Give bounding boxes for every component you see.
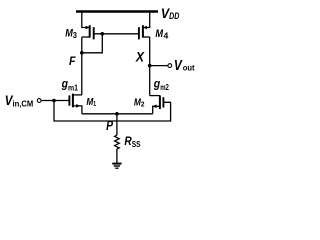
ground [112,164,121,169]
wire P to resistor [116,114,118,135]
wire M4 source to VDD [144,12,150,28]
wire Vin to M1 gate [41,100,69,102]
wire F column (M3 drain to M1 drain) [81,37,83,95]
terminal Vin circle [37,99,41,103]
node gate junction [101,32,105,36]
node F [80,51,84,55]
wire to Vout terminal [150,65,168,67]
transistor M4 [139,25,150,39]
svg-text:F: F [69,54,76,68]
wire X column (M4 drain to M2 drain) [149,37,151,96]
wire gate line M3-M4 [95,33,139,35]
resistor RSS [115,135,120,149]
svg-text:M4: M4 [155,28,168,40]
svg-text:X: X [135,49,145,65]
terminal Vout circle [168,64,172,68]
wire source line to node P [82,113,153,115]
node Vin junction [52,99,56,103]
svg-text:M1: M1 [86,97,96,108]
transistor M3 [82,25,94,39]
svg-text:M2: M2 [134,97,145,108]
node X [148,64,152,68]
wire M2 gate return (to Vin line) [54,101,171,122]
node P [115,112,119,116]
transistor M2 [150,95,164,113]
wire M3 source to VDD [82,12,89,28]
svg-text:M3: M3 [65,28,77,40]
wire diode connection loop [82,34,103,53]
svg-text:P: P [106,118,114,133]
wire VDD rail [76,10,158,12]
wire resistor to ground [116,149,118,163]
transistor M1 [69,94,82,114]
